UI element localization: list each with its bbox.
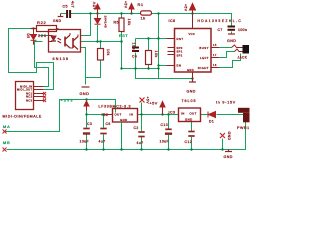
wire R3 bottom to gnd bbox=[86, 60, 101, 78]
wire top +5V rail bbox=[74, 13, 141, 15]
wire opto anode link bbox=[39, 35, 49, 37]
svg-text:VCC: VCC bbox=[189, 32, 196, 36]
DIN connector X1 bbox=[16, 82, 34, 110]
svg-text:MB: MB bbox=[3, 141, 11, 145]
PWR1 connector bbox=[238, 108, 250, 123]
svg-text:BUSY: BUSY bbox=[199, 46, 209, 50]
svg-text:D1: D1 bbox=[209, 120, 214, 124]
resistor R1 bbox=[141, 11, 152, 15]
wire opto cathode link bbox=[35, 42, 43, 45]
optocoupler OK1 6N138 bbox=[49, 30, 81, 53]
svg-text:SP2: SP2 bbox=[177, 53, 183, 57]
svg-text:GND: GND bbox=[185, 117, 193, 121]
svg-text:C12: C12 bbox=[185, 140, 193, 144]
X symbol supply at x141 bbox=[140, 98, 145, 103]
svg-text:JACK: JACK bbox=[238, 56, 248, 60]
svg-text:PWR1: PWR1 bbox=[237, 126, 250, 130]
svg-text:C4: C4 bbox=[132, 55, 137, 59]
wire X2 stub bbox=[222, 139, 224, 150]
wire RST bbox=[136, 38, 175, 40]
diode D2 1N4148 bbox=[95, 14, 101, 25]
gnd symbol opto bbox=[82, 86, 90, 88]
wire opto out bbox=[81, 41, 122, 43]
78L05 regulator IC3 bbox=[179, 108, 201, 122]
svg-text:SP1: SP1 bbox=[177, 50, 183, 54]
X symbol near gnd bbox=[220, 133, 225, 138]
wire D5 cathode down to DIN bbox=[34, 45, 49, 87]
svg-text:IN: IN bbox=[130, 112, 134, 116]
wire C13 stubs bbox=[168, 115, 170, 129]
svg-text:+5V: +5V bbox=[93, 1, 97, 9]
IC1 box bbox=[175, 29, 212, 73]
gnd cap C5a top-left bbox=[58, 10, 70, 18]
svg-text:IC2: IC2 bbox=[102, 113, 109, 117]
wire jack tip bbox=[219, 47, 232, 49]
wire top rail right of R1 bbox=[152, 14, 232, 26]
svg-text:R1: R1 bbox=[138, 2, 144, 7]
svg-text:220: 220 bbox=[38, 33, 47, 38]
svg-text:GND: GND bbox=[80, 92, 90, 96]
LF33 regulator IC2 bbox=[113, 109, 138, 123]
wire R22 right stub bbox=[57, 28, 59, 30]
svg-text:MA: MA bbox=[3, 125, 11, 129]
svg-text:+3V3: +3V3 bbox=[61, 99, 74, 103]
svg-text:17: 17 bbox=[213, 53, 217, 57]
wire MIDI pin1 to R22 left bbox=[9, 29, 54, 90]
svg-text:10uF: 10uF bbox=[80, 140, 90, 144]
svg-text:78L05: 78L05 bbox=[182, 99, 197, 103]
resistor R5 vertical bbox=[119, 18, 124, 32]
LF33 gnd drop bbox=[121, 132, 123, 150]
wire +3V3 loop bbox=[5, 100, 116, 132]
supply arrow +5V mid bbox=[160, 102, 165, 115]
svg-text:C13: C13 bbox=[161, 123, 169, 127]
resistor R3 vertical bbox=[98, 49, 104, 61]
wire 3v3 rail bbox=[87, 114, 113, 116]
svg-text:C3: C3 bbox=[87, 122, 92, 126]
capacitor C7 bbox=[228, 27, 236, 30]
wire C5 stubs bbox=[103, 115, 105, 128]
wire reg out to D1 bbox=[201, 114, 209, 116]
svg-text:GND: GND bbox=[187, 90, 196, 94]
svg-text:OUT: OUT bbox=[190, 112, 197, 116]
svg-text:EN: EN bbox=[177, 64, 182, 68]
svg-text:IN: IN bbox=[181, 112, 185, 116]
svg-text:GND: GND bbox=[187, 68, 194, 72]
svg-text:10k: 10k bbox=[106, 49, 110, 56]
IC1 vcc arrow bbox=[190, 4, 196, 11]
svg-text:10k: 10k bbox=[154, 51, 158, 58]
wire R4 stubs bbox=[148, 39, 150, 51]
svg-text:GND: GND bbox=[53, 19, 62, 23]
svg-text:GND: GND bbox=[224, 155, 233, 159]
nc cross MA bbox=[3, 130, 7, 152]
svg-text:GND: GND bbox=[227, 132, 231, 141]
svg-text:NC3: NC3 bbox=[26, 100, 33, 103]
wire cap C5a stub bbox=[71, 13, 74, 15]
svg-text:R22: R22 bbox=[37, 20, 47, 25]
svg-text:15: 15 bbox=[213, 43, 217, 47]
svg-text:RIGHT: RIGHT bbox=[198, 66, 209, 70]
svg-text:RST: RST bbox=[177, 37, 184, 41]
svg-text:100n: 100n bbox=[132, 43, 136, 52]
svg-text:C7: C7 bbox=[218, 28, 223, 32]
supply arrow +3V3 bbox=[84, 101, 89, 111]
svg-text:1N4148: 1N4148 bbox=[104, 16, 108, 29]
wire jack ring bbox=[219, 52, 235, 58]
wire D1 to PWR bbox=[217, 114, 244, 116]
jack connector bbox=[243, 45, 250, 54]
svg-text:16: 16 bbox=[213, 63, 217, 67]
resistor R22 bbox=[31, 26, 57, 32]
wire rail A bbox=[122, 68, 159, 70]
svg-text:+5V: +5V bbox=[124, 1, 128, 9]
supply arrow +5V at x132 bbox=[129, 4, 134, 14]
capacitor C12 bbox=[188, 132, 194, 137]
svg-text:In 9-15V: In 9-15V bbox=[216, 101, 236, 105]
svg-text:SP0: SP0 bbox=[177, 46, 183, 50]
svg-text:C6: C6 bbox=[106, 122, 111, 126]
wire R5 column bbox=[121, 14, 123, 19]
wire diode D2 bottom bbox=[97, 25, 99, 42]
wire reset cap column bbox=[135, 39, 137, 47]
svg-text:+5V: +5V bbox=[184, 4, 188, 12]
svg-text:4u7: 4u7 bbox=[99, 140, 106, 144]
supply arrow +5V at x97 bbox=[95, 4, 100, 14]
svg-text:100n: 100n bbox=[238, 28, 247, 32]
gnd symbol C7 bbox=[228, 33, 235, 35]
svg-text:R5: R5 bbox=[114, 21, 120, 25]
svg-text:HDA1395EZHL.C: HDA1395EZHL.C bbox=[198, 19, 243, 23]
svg-text:IC8: IC8 bbox=[169, 19, 176, 23]
diode D1 bbox=[208, 112, 216, 118]
wire opto emitter gnd bbox=[81, 48, 86, 85]
gnd symbol under IC bbox=[189, 79, 196, 83]
capacitor C5b bbox=[100, 129, 106, 134]
svg-text:LF33BMC2-3.3: LF33BMC2-3.3 bbox=[99, 105, 132, 109]
IC1 left pins bbox=[167, 10, 220, 79]
wire 5v rail bbox=[138, 114, 179, 116]
svg-text:OUT: OUT bbox=[115, 112, 122, 116]
svg-text:C5: C5 bbox=[63, 5, 69, 9]
svg-text:10uF: 10uF bbox=[160, 140, 170, 144]
gnd symbol bottom right bbox=[225, 150, 232, 152]
wire opto pin8 to rail bbox=[81, 14, 91, 36]
wire C2 stubs bbox=[141, 115, 143, 132]
wire EN pin bbox=[159, 65, 167, 67]
capacitor C13 polarized bbox=[165, 129, 172, 133]
wire +3V3 arrow stub bbox=[86, 110, 88, 115]
svg-text:NC2: NC2 bbox=[26, 96, 33, 99]
wire gnd rail bottom bbox=[7, 122, 246, 150]
svg-text:6N138: 6N138 bbox=[53, 57, 70, 61]
capacitor C4 reset bbox=[132, 48, 139, 52]
svg-text:C2: C2 bbox=[134, 126, 139, 130]
svg-text:GND: GND bbox=[227, 39, 236, 43]
wire R1 drop bbox=[158, 14, 160, 79]
wire C3 stubs bbox=[86, 115, 88, 128]
svg-text:GND: GND bbox=[120, 118, 128, 122]
svg-text:4u7: 4u7 bbox=[70, 1, 74, 8]
svg-text:10k: 10k bbox=[127, 19, 131, 26]
svg-text:IC3: IC3 bbox=[169, 111, 176, 115]
wire R3 top stub bbox=[100, 42, 102, 49]
wire X1 stub bbox=[141, 103, 143, 115]
capacitor C3 polarized bbox=[83, 129, 90, 134]
svg-text:4u7: 4u7 bbox=[137, 141, 144, 145]
svg-text:D5: D5 bbox=[26, 34, 30, 39]
wire C7 stubs bbox=[231, 32, 233, 35]
wire jack sleeve bbox=[219, 54, 241, 68]
svg-text:LEFT: LEFT bbox=[200, 56, 209, 60]
svg-text:+5V: +5V bbox=[150, 102, 158, 106]
svg-text:MIDI_OUT: MIDI_OUT bbox=[17, 89, 33, 92]
svg-text:1k: 1k bbox=[141, 16, 146, 21]
wire C12 stubs bbox=[191, 122, 193, 132]
svg-text:RST: RST bbox=[119, 34, 128, 38]
svg-text:MIDI-DIN/FEMALE: MIDI-DIN/FEMALE bbox=[3, 115, 42, 119]
capacitor C2 bbox=[138, 132, 144, 137]
resistor R4 vertical bbox=[146, 51, 152, 65]
